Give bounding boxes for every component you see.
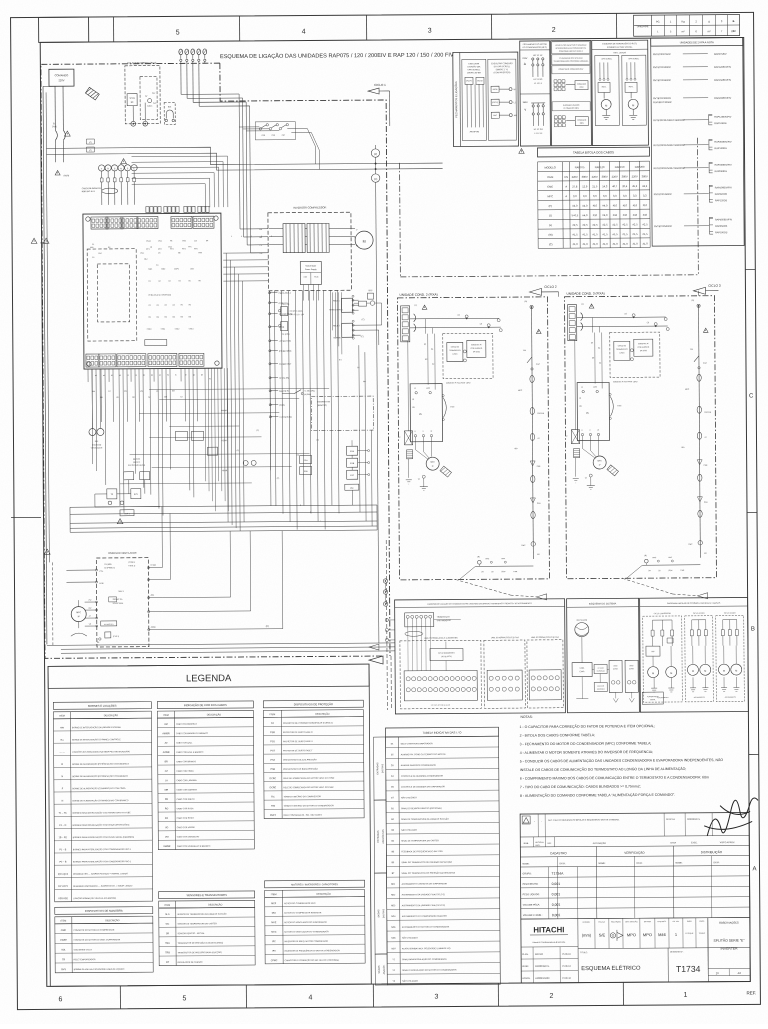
long horizontal bus wires xyxy=(70,505,377,532)
panel FECHAMENTOS E LIGACOES xyxy=(453,52,519,146)
unit 2 thermostat dashed box xyxy=(443,333,493,384)
grupo/peso rows xyxy=(520,865,749,919)
bottom zone numbers xyxy=(58,990,756,1003)
inverter compressor xyxy=(259,205,373,291)
boundary exit arrow xyxy=(369,656,383,664)
revision row xyxy=(520,812,749,837)
hatch flag symbol xyxy=(85,87,99,100)
legenda outer box xyxy=(48,664,371,986)
relay 1 termostato xyxy=(329,295,359,314)
top zone tick marks xyxy=(114,13,617,42)
unit 3 AT aux box xyxy=(565,340,580,484)
current loop option boxes xyxy=(278,303,305,336)
column drop wires to bus xyxy=(270,345,372,527)
legend table INDICAÇÃO DE COR DOS CABOS xyxy=(157,701,254,850)
termostato remote dash-dot box xyxy=(311,396,373,430)
bottom zone tick marks xyxy=(120,982,623,1009)
legend table BORNES E LIGAÇÕES xyxy=(53,702,152,902)
unit 2 fan motor xyxy=(415,437,451,491)
unit 3 strip drop wires xyxy=(591,332,602,388)
command box: group ciclo1 xyxy=(400,636,482,709)
sistema: evap fan xyxy=(575,619,589,663)
alimentador geral box xyxy=(642,692,663,704)
extra drop wires with jogs xyxy=(204,292,343,511)
top zone numbers xyxy=(176,27,556,37)
incoming supply terminals xyxy=(179,49,207,63)
unit 3 thermostat dashed box xyxy=(610,332,660,383)
wires from PCB bottom xyxy=(88,368,198,516)
unit 2 internal verticals xyxy=(426,318,499,385)
sensor terminal circles row xyxy=(98,165,137,205)
command box: thermostat terminal block xyxy=(405,613,452,637)
io table group labels (vertical) xyxy=(374,737,388,985)
ciclo 2 arrow xyxy=(529,285,558,296)
ventilador inverter right wires xyxy=(162,506,283,630)
unit 3 terminal strip xyxy=(568,305,577,341)
revision signature scribble xyxy=(704,798,758,836)
units-of-measure table xyxy=(634,15,740,37)
relay circuit bottom xyxy=(95,489,160,516)
units/scale cells xyxy=(578,917,750,948)
surge protector fuses PSR PSS PST xyxy=(239,121,319,170)
wires into command box A xyxy=(47,643,395,653)
tabela bitola dos cabos xyxy=(537,147,650,248)
panel esquema de montagem RST1 xyxy=(592,40,649,145)
left feed dashed verticals to command box xyxy=(385,540,396,710)
PCB top terminal strips xyxy=(91,216,214,229)
unit 2 CVC capacitor xyxy=(442,395,455,421)
relay 2 alarme xyxy=(333,319,365,339)
condenser unit 3 boundary xyxy=(564,291,716,579)
pcb right edge connector column xyxy=(268,291,293,471)
list of unit model codes xyxy=(651,37,744,246)
solenoid valve circles xyxy=(88,369,104,450)
unit 2 MFC block xyxy=(410,384,442,442)
panel filtro/comando boxes xyxy=(551,41,592,146)
titulo cell xyxy=(580,948,668,983)
bottom boundary connector circles xyxy=(383,579,388,606)
sistema: caixa comando boxes xyxy=(592,664,607,691)
command box: kit acionamento small box xyxy=(430,648,463,660)
unit 3 breaker fuses xyxy=(581,304,595,331)
inversor ventilador xyxy=(66,552,163,648)
unit 3 CVC capacitor xyxy=(609,393,622,419)
legend table DISPOSITIVOS DE MANOBRA xyxy=(55,907,153,973)
buzzer BJS xyxy=(353,290,381,306)
unit 2 bottom terminals xyxy=(459,556,533,580)
cadastro header xyxy=(520,845,749,919)
sistema: cond unit boxes xyxy=(576,660,638,702)
warning triangle near tabela xyxy=(519,149,524,154)
unifilar column CICLO 2 FIXO xyxy=(685,613,714,702)
PCB interior annotations xyxy=(92,240,209,331)
nested wire bends into PCB xyxy=(132,156,228,208)
unit 2 AT aux box xyxy=(398,341,413,485)
panel fechamento do motor MFC xyxy=(520,41,551,146)
kit acionamento KC3 dashed box xyxy=(125,62,160,127)
unit 3 bottom terminals xyxy=(626,555,700,579)
unifilar column CICLO 1 INVERSOR xyxy=(643,613,683,702)
condenser unit 2 boundary xyxy=(397,292,549,580)
left zone tick xyxy=(11,516,41,518)
comando 220V box xyxy=(49,69,74,130)
cabos blindados label xyxy=(82,187,118,194)
observacoes cell xyxy=(708,917,750,981)
unit 3 MFC block xyxy=(577,382,609,440)
main control PCB xyxy=(83,213,222,369)
right zone letters xyxy=(745,269,759,872)
ciclo 3 arrow xyxy=(693,284,720,295)
misc tiny component labels (board annotations) xyxy=(90,235,367,524)
unit 3 fan motor xyxy=(582,435,618,489)
unit 2 right chain xyxy=(514,301,546,559)
unit 3 right chain xyxy=(681,300,713,558)
plan/verif/aprov rows xyxy=(521,947,578,983)
left bottom dashed pair xyxy=(51,562,54,645)
legend table DISPOSITIVOS DE PROTEÇÃO xyxy=(263,700,364,818)
command box: group ciclo3 xyxy=(527,636,564,708)
ciclo 1 arrow and label xyxy=(368,83,390,126)
power feed pair wires xyxy=(46,137,442,173)
command box wires xyxy=(408,619,461,670)
legend table MOTORES / INVERSORES / CAPACITORES xyxy=(265,880,366,964)
mid vertical wire group xyxy=(226,252,339,531)
notas xyxy=(519,714,723,798)
P and C labelled node circles xyxy=(371,145,383,643)
sistema: unid evap box xyxy=(572,663,592,677)
supply wire bundle to right xyxy=(181,63,250,106)
relay output wires xyxy=(361,303,382,345)
title block frame xyxy=(520,812,750,983)
left feeder wires xyxy=(43,86,59,644)
pressure switch stack PSA PSB PST xyxy=(344,440,369,490)
unifilar column CICLO 3 FIXO xyxy=(716,612,745,701)
bloco eletrovalvulas xyxy=(124,459,150,494)
remote switch xyxy=(282,389,315,396)
M3R warning xyxy=(55,170,69,177)
MFC fan motor xyxy=(71,599,102,644)
warning triangles xyxy=(64,131,70,136)
desenho cell xyxy=(670,948,708,982)
PCB bottom terminal strips xyxy=(86,353,204,367)
command box: group ciclo2 xyxy=(484,636,526,708)
unit 2 top wires xyxy=(410,314,503,334)
box esquema do sistema xyxy=(567,598,640,712)
hitachi logo cell xyxy=(521,917,750,983)
revision header row xyxy=(520,835,749,847)
unit 3 internal verticals xyxy=(593,317,666,384)
unit 2 terminal strip xyxy=(401,306,410,342)
top-left zone box xyxy=(39,17,89,42)
unit 2 breaker fuses xyxy=(414,305,428,332)
aux contact box BS xyxy=(164,102,175,124)
breaker BJ xyxy=(52,123,66,162)
connector blocks row above PCB xyxy=(146,206,209,212)
unit 2 strip drop wires xyxy=(424,334,435,390)
legend table SENSORES E TRANSDUTORES xyxy=(159,891,256,966)
scan noise overlay xyxy=(0,0,1,1)
box esquema de ligacao do comando xyxy=(395,599,566,714)
horizontal pcb-to-inverter wires xyxy=(223,253,268,281)
switch mode power supply xyxy=(300,261,321,300)
box diagrama unifilar xyxy=(640,597,749,712)
unit 3 top wires xyxy=(577,313,670,333)
main unit boundary (dash-dot) xyxy=(41,62,390,658)
mid-area horizontal link wires xyxy=(119,388,330,483)
tabela indicativa das I/O xyxy=(386,727,501,985)
nome data row xyxy=(520,855,749,919)
ciclo distribution dash-dot xyxy=(399,138,698,277)
inter-unit dashed drop lines xyxy=(453,291,707,601)
bundle vertical drops into inverter xyxy=(239,94,268,253)
